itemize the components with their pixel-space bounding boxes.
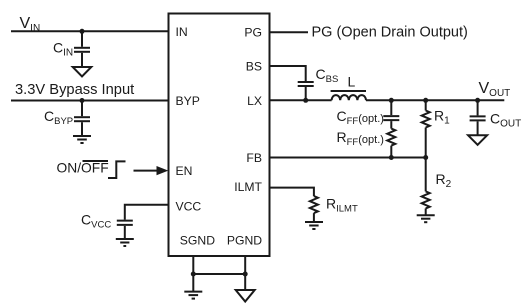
wire PGND pin down [244,256,246,290]
svg-text:RFF(opt.): RFF(opt.) [337,129,384,148]
arrow to EN pin [134,166,169,175]
ground below RILMT [305,222,323,229]
rising edge symbol [108,161,126,178]
resistor R1 [422,100,430,157]
svg-text:VOUT: VOUT [479,80,511,99]
node junction on IN wire [80,29,85,34]
svg-text:R2: R2 [436,171,452,190]
wire joining SGND and PGND [193,273,245,275]
wire LX pin to inductor [270,99,332,101]
svg-text:ILMT: ILMT [234,180,262,194]
svg-text:CBYP: CBYP [44,108,73,127]
wire FB pin [270,157,426,159]
node junction R1 top [423,98,428,103]
ground below CBYP [73,136,91,143]
wire BS pin [270,66,306,81]
ground (open triangle) below PGND [236,290,255,302]
capacitor CBYP [74,101,90,137]
node junction on BYP wire [80,98,85,103]
capacitor CIN [74,31,90,67]
svg-text:CVCC: CVCC [81,212,111,231]
node junction PGND bus [243,272,248,277]
svg-text:VCC: VCC [176,200,202,214]
svg-text:RILMT: RILMT [326,196,358,215]
svg-text:3.3V Bypass Input: 3.3V Bypass Input [15,82,134,98]
svg-text:PGND: PGND [227,233,262,247]
ground (open triangle) below CIN [73,67,92,77]
wire VCC pin [125,205,169,220]
svg-text:BYP: BYP [176,94,200,108]
svg-text:IN: IN [176,25,188,39]
capacitor CBS [298,82,314,100]
ground (open triangle) below COUT [468,135,487,145]
node junction RFF/FB [389,155,394,160]
svg-text:COUT: COUT [490,111,521,130]
overline over OFF [83,160,109,162]
svg-text:CIN: CIN [53,40,73,59]
ground below CVCC [116,239,134,246]
svg-text:CFF(opt.): CFF(opt.) [337,108,384,127]
svg-text:EN: EN [176,164,193,178]
wire PG pin [270,31,309,33]
capacitor COUT [470,100,486,135]
node junction R1/R2/FB [423,155,428,160]
svg-text:SGND: SGND [180,233,215,247]
node junction SGND bus [191,272,196,277]
node junction COUT top [475,98,480,103]
resistor RFF [387,129,395,158]
op-amp U1 (IC body) [169,14,270,257]
wire bypass input to BYP pin [11,100,169,102]
ground below SGND [184,292,202,299]
capacitor CVCC [117,221,133,239]
svg-text:PG: PG [244,26,262,40]
svg-text:L: L [348,74,356,90]
node junction CFF column [389,98,394,103]
ground below R2 [417,215,435,222]
resistor R2 [422,158,430,216]
svg-text:PG (Open Drain Output): PG (Open Drain Output) [312,25,468,41]
svg-text:R1: R1 [434,108,450,127]
wire VIN to IN pin [11,30,169,32]
inductor L [331,91,366,100]
resistor RILMT [310,196,318,222]
wire SGND pin down [192,256,194,291]
wire inductor to VOUT [366,99,504,101]
node junction BS/LX [303,98,308,103]
svg-text:ON/OFF: ON/OFF [57,161,109,176]
capacitor CFF [383,100,399,128]
svg-text:CBS: CBS [316,66,339,85]
svg-text:LX: LX [247,94,262,108]
svg-text:BS: BS [246,60,262,74]
svg-text:FB: FB [246,151,262,165]
wire ILMT pin [270,188,314,197]
